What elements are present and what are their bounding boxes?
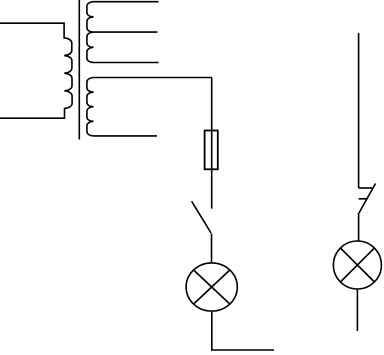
transformer T1 secondary winding S1 (tapped) (87, 2, 159, 63)
lamp H1 cross stroke 1 (194, 270, 230, 304)
pushbutton S2 lower contact tick (359, 198, 368, 200)
lamp H2 (333, 241, 381, 289)
wire lamp H1 to bottom rail (212, 312, 274, 350)
lamp H1 cross stroke 2 (194, 270, 230, 304)
wire switch to lamp (211, 234, 213, 263)
switch S1 blade (192, 201, 211, 233)
wire pushbutton to lamp H2 (358, 213, 360, 241)
transformer T1 core (78, 0, 80, 140)
wire below lamp H2 (356, 289, 358, 331)
transformer T1 secondary winding S2 (87, 78, 212, 136)
lamp H2 cross stroke 1 (340, 248, 374, 282)
lamp H2 cross stroke 2 (340, 248, 374, 282)
pushbutton S2 blade (359, 184, 376, 214)
transformer T1 primary winding (0, 23, 72, 118)
pushbutton S2 upper contact (359, 187, 374, 189)
lamp H1 (186, 263, 237, 311)
wire from S2 down to fuse and switch (211, 78, 213, 209)
winding S1 center tap lead (94, 31, 158, 33)
fuse F1 (205, 131, 218, 170)
right branch supply wire (358, 33, 360, 188)
